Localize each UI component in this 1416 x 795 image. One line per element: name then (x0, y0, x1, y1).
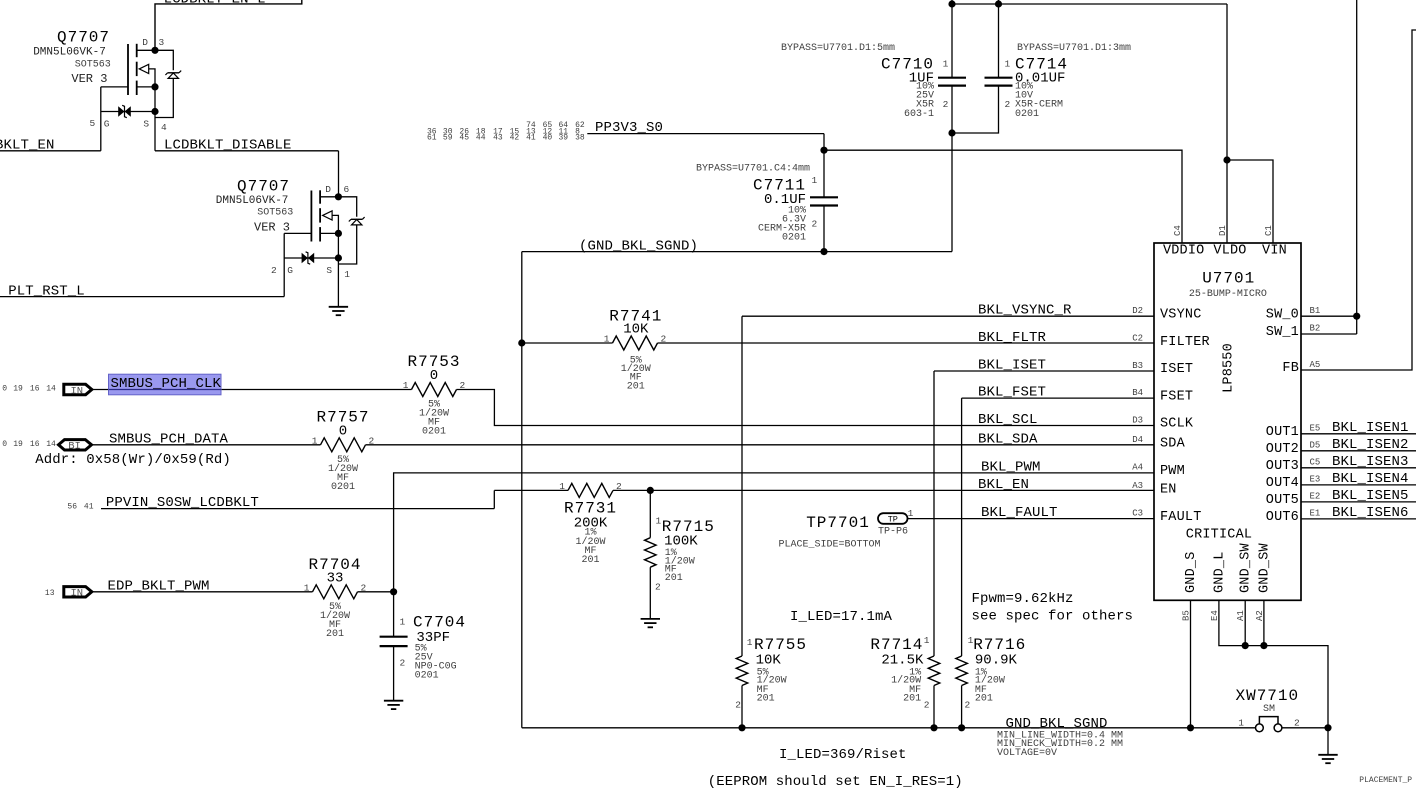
resistor R7716 (956, 656, 968, 686)
svg-text:C1: C1 (1264, 225, 1274, 236)
wire gate riser of lower Q7707 (283, 233, 285, 296)
svg-text:BKL_FSET: BKL_FSET (978, 385, 1046, 401)
svg-text:I_LED=369/Riset: I_LED=369/Riset (779, 747, 907, 763)
net LCDBKLT_EN_L entering from page top (155, 0, 302, 50)
svg-text:2: 2 (812, 219, 818, 230)
svg-text:0: 0 (339, 423, 347, 439)
svg-text:1: 1 (943, 58, 949, 69)
svg-text:33: 33 (327, 570, 344, 586)
svg-text:25-BUMP-MICRO: 25-BUMP-MICRO (1189, 289, 1267, 300)
svg-text:Addr: 0x58(Wr)/0x59(Rd): Addr: 0x58(Wr)/0x59(Rd) (35, 452, 231, 468)
svg-text:90.9K: 90.9K (975, 653, 1018, 669)
svg-text:1: 1 (403, 380, 409, 391)
svg-text:BKL_SDA: BKL_SDA (978, 431, 1038, 447)
resistor R7757 (321, 438, 366, 452)
svg-text:BKL_SCL: BKL_SCL (978, 412, 1038, 428)
svg-text:0: 0 (2, 440, 7, 449)
svg-text:DMN5L06VK-7: DMN5L06VK-7 (216, 195, 289, 207)
svg-text:BKL_ISEN5: BKL_ISEN5 (1332, 488, 1409, 504)
svg-text:2: 2 (735, 700, 741, 711)
net BKL_ISEN4 (1301, 484, 1416, 486)
svg-text:603-1: 603-1 (904, 109, 934, 120)
svg-text:LCDBKLT_EN_L: LCDBKLT_EN_L (164, 0, 266, 8)
svg-text:21.5K: 21.5K (881, 653, 924, 669)
svg-text:BKL_ISEN4: BKL_ISEN4 (1332, 471, 1409, 487)
svg-text:D4: D4 (1132, 435, 1143, 445)
svg-text:61: 61 (427, 134, 437, 143)
svg-text:14: 14 (46, 385, 56, 394)
svg-text:PLACEMENT_P: PLACEMENT_P (1359, 776, 1412, 785)
svg-text:S: S (143, 119, 149, 130)
svg-text:59: 59 (443, 134, 453, 143)
wire BKL_SCL from R7753 to SCLK (457, 390, 1155, 426)
svg-text:FB: FB (1282, 361, 1299, 376)
node junctions on bottom rail (738, 724, 745, 731)
net BKL_ISEN2 (1301, 450, 1416, 452)
svg-text:VOLTAGE=0V: VOLTAGE=0V (997, 748, 1057, 759)
svg-text:19: 19 (13, 385, 23, 394)
svg-text:43: 43 (493, 134, 503, 143)
svg-text:FILTER: FILTER (1160, 335, 1210, 350)
op-amp U7701 LP8550 body (1154, 243, 1301, 600)
resistor R7715 (649, 490, 651, 537)
svg-text:14: 14 (46, 440, 56, 449)
svg-text:R7714: R7714 (870, 636, 923, 654)
net BKL_ISEN1 (1301, 433, 1416, 435)
svg-text:2: 2 (616, 481, 622, 492)
svg-text:D: D (142, 37, 148, 48)
svg-text:SDA: SDA (1160, 436, 1186, 451)
svg-text:OUT5: OUT5 (1266, 493, 1299, 508)
resistor R7731 (568, 483, 613, 497)
wire GND runner vertical (521, 252, 523, 728)
svg-text:201: 201 (627, 381, 645, 392)
svg-text:C5: C5 (1310, 458, 1321, 468)
svg-text:GND_S: GND_S (1184, 551, 1199, 593)
svg-text:U7701: U7701 (1202, 270, 1255, 288)
svg-text:FSET: FSET (1160, 389, 1193, 404)
resistor R7753 (412, 383, 457, 397)
svg-text:2: 2 (271, 265, 277, 276)
svg-text:13: 13 (45, 589, 55, 598)
svg-text:SOT563: SOT563 (75, 59, 111, 70)
svg-text:40: 40 (543, 134, 553, 143)
svg-text:VLDO: VLDO (1213, 244, 1246, 259)
node junction PP3V3 to C7711 and VDDIO (820, 147, 827, 154)
svg-text:GND_SW: GND_SW (1239, 542, 1254, 593)
svg-text:BKL_FAULT: BKL_FAULT (981, 505, 1058, 521)
svg-text:2: 2 (400, 658, 406, 669)
ground at C7704 (384, 700, 403, 702)
svg-text:GND_L: GND_L (1212, 551, 1227, 593)
wire BKL_PWM up and right to PWM pin (394, 473, 1154, 592)
svg-text:IN: IN (70, 588, 83, 600)
svg-text:BKLT_EN: BKLT_EN (0, 138, 55, 154)
svg-text:PPVIN_S0SW_LCDBKLT: PPVIN_S0SW_LCDBKLT (106, 495, 259, 511)
node junction EN divider (647, 487, 654, 494)
svg-text:SM: SM (1263, 704, 1275, 715)
svg-text:4: 4 (161, 122, 167, 133)
net BKLT_EN (LCDBKLT_EN clipped at page edge) (0, 150, 101, 152)
wire GND_L / GND_SW rail (1219, 600, 1328, 728)
svg-text:SMBUS_PCH_CLK: SMBUS_PCH_CLK (111, 376, 222, 392)
svg-text:1: 1 (908, 508, 914, 519)
capacitor C7704 (393, 592, 395, 637)
svg-text:OUT4: OUT4 (1266, 476, 1299, 491)
net BKL_ISEN6 (1301, 518, 1416, 520)
svg-text:SW_0: SW_0 (1266, 307, 1299, 322)
svg-text:BI: BI (68, 441, 81, 453)
svg-text:VER 3: VER 3 (254, 221, 290, 235)
svg-text:GND_SW: GND_SW (1257, 542, 1272, 593)
transistor Q7707 (upper) (127, 44, 129, 95)
capacitor C7710 (951, 4, 953, 78)
wire VLDO/VIN feed from top rail (1226, 4, 1228, 160)
svg-text:B3: B3 (1132, 361, 1143, 371)
svg-text:A4: A4 (1132, 463, 1143, 473)
wire FB to page top right (1301, 30, 1416, 370)
svg-text:EN: EN (1160, 482, 1177, 497)
svg-text:3: 3 (159, 37, 165, 48)
svg-text:1: 1 (747, 637, 753, 648)
svg-text:SMBUS_PCH_DATA: SMBUS_PCH_DATA (109, 431, 229, 447)
svg-text:E5: E5 (1310, 424, 1321, 434)
svg-text:D: D (325, 184, 331, 195)
wire BKL_FSET from R7716 to FSET (962, 397, 1154, 399)
svg-text:BYPASS=U7701.C4:4mm: BYPASS=U7701.C4:4mm (696, 164, 810, 175)
svg-text:0201: 0201 (1015, 109, 1039, 120)
net PLT_RST_L (0, 296, 284, 298)
svg-text:C2: C2 (1132, 333, 1143, 343)
svg-text:2: 2 (1005, 99, 1011, 110)
svg-text:0: 0 (430, 368, 438, 384)
svg-text:39: 39 (559, 134, 569, 143)
capacitor C7714 (998, 4, 1000, 78)
svg-text:2: 2 (924, 700, 930, 711)
svg-text:10K: 10K (623, 322, 649, 338)
wire BKL_ISET from R7714 to ISET (934, 370, 1154, 372)
node SMBUS_PCH_CLK highlighted net label (109, 374, 222, 395)
svg-text:C3: C3 (1132, 508, 1143, 518)
svg-text:SOT563: SOT563 (257, 208, 293, 219)
svg-text:BKL_ISEN3: BKL_ISEN3 (1332, 454, 1409, 470)
svg-text:(GND_BKL_SGND): (GND_BKL_SGND) (579, 238, 698, 254)
wire BKL_SDA from R7757 to SDA (366, 444, 1155, 446)
svg-text:BKL_ISET: BKL_ISET (978, 358, 1046, 374)
svg-text:0: 0 (2, 385, 7, 394)
svg-text:D3: D3 (1132, 415, 1143, 425)
svg-text:SCLK: SCLK (1160, 417, 1194, 432)
svg-text:OUT6: OUT6 (1266, 510, 1299, 525)
svg-text:G: G (287, 265, 293, 276)
svg-text:VIN: VIN (1262, 244, 1287, 259)
svg-text:0201: 0201 (331, 482, 355, 493)
svg-text:D5: D5 (1310, 441, 1321, 451)
svg-text:D1: D1 (1218, 225, 1228, 236)
node junction at C7714 top (995, 0, 1002, 7)
svg-text:R7755: R7755 (754, 636, 807, 654)
svg-text:0201: 0201 (422, 427, 446, 438)
svg-text:B2: B2 (1310, 324, 1321, 334)
svg-text:BKL_ISEN6: BKL_ISEN6 (1332, 505, 1409, 521)
svg-text:201: 201 (326, 629, 344, 640)
svg-text:G: G (104, 119, 110, 130)
svg-text:42: 42 (510, 134, 520, 143)
svg-text:TP-P6: TP-P6 (878, 527, 908, 538)
svg-text:E1: E1 (1310, 509, 1321, 519)
resistor R7755 (736, 656, 748, 686)
wire SW_0 to inductor rail (1301, 315, 1357, 317)
wire to VDDIO pin (824, 150, 1182, 243)
net BKL_ISEN5 (1301, 501, 1416, 503)
svg-text:E2: E2 (1310, 492, 1321, 502)
svg-text:41: 41 (526, 134, 536, 143)
svg-text:TP7701: TP7701 (806, 514, 870, 532)
svg-text:5: 5 (90, 118, 96, 129)
node junction at C7710 top (948, 0, 955, 7)
svg-text:B4: B4 (1132, 388, 1143, 398)
svg-text:0201: 0201 (415, 671, 439, 682)
wire BKL_VSYNC_R from divider to VSYNC (742, 315, 1154, 317)
svg-text:(EEPROM should set EN_I_RES=1): (EEPROM should set EN_I_RES=1) (708, 774, 963, 790)
svg-text:PLT_RST_L: PLT_RST_L (8, 283, 85, 299)
svg-text:16: 16 (30, 385, 40, 394)
svg-text:VDDIO: VDDIO (1163, 244, 1205, 259)
node junction at caps bottom (948, 129, 955, 136)
svg-text:1: 1 (400, 617, 406, 628)
resistor R7741 (522, 342, 613, 344)
svg-text:19: 19 (13, 440, 23, 449)
svg-text:201: 201 (665, 573, 683, 584)
wire GND_S down (1190, 600, 1192, 728)
svg-text:see spec for others: see spec for others (972, 609, 1134, 625)
svg-text:LP8550: LP8550 (1222, 343, 1237, 393)
svg-text:S: S (326, 265, 332, 276)
svg-text:1: 1 (1005, 58, 1011, 69)
svg-text:2: 2 (661, 334, 667, 345)
svg-text:1: 1 (1238, 717, 1244, 728)
svg-text:44: 44 (476, 134, 486, 143)
svg-text:VSYNC: VSYNC (1160, 307, 1202, 322)
svg-text:Q7707: Q7707 (237, 178, 290, 196)
svg-text:DMN5L06VK-7: DMN5L06VK-7 (33, 47, 106, 59)
svg-text:1: 1 (559, 481, 565, 492)
svg-text:D2: D2 (1132, 306, 1143, 316)
wire caps bottom to GND_BKL_SGND rail (951, 133, 953, 252)
svg-text:PWM: PWM (1160, 464, 1185, 479)
svg-text:1: 1 (344, 269, 350, 280)
svg-text:FAULT: FAULT (1160, 510, 1202, 525)
ground at lower Q7707 source (329, 306, 348, 308)
svg-text:A3: A3 (1132, 481, 1143, 491)
net BKL_ISEN3 (1301, 467, 1416, 469)
svg-text:38: 38 (575, 134, 585, 143)
svg-text:1: 1 (312, 436, 318, 447)
svg-text:XW7710: XW7710 (1236, 687, 1300, 705)
svg-text:Q7707: Q7707 (57, 29, 110, 47)
svg-text:IN: IN (70, 385, 83, 397)
svg-text:2: 2 (1294, 717, 1300, 728)
svg-text:41: 41 (84, 502, 94, 511)
wire to ground (1327, 728, 1329, 755)
svg-text:0201: 0201 (782, 233, 806, 244)
svg-text:ISET: ISET (1160, 362, 1193, 377)
svg-text:1: 1 (812, 175, 818, 186)
node junction C7711 bottom (820, 248, 827, 255)
svg-text:BYPASS=U7701.D1:5mm: BYPASS=U7701.D1:5mm (781, 43, 895, 54)
wire SW_1 (1301, 333, 1357, 335)
svg-text:201: 201 (903, 693, 921, 704)
svg-text:BKL_VSYNC_R: BKL_VSYNC_R (978, 303, 1072, 319)
svg-text:SW_1: SW_1 (1266, 325, 1299, 340)
svg-text:1: 1 (604, 334, 610, 345)
wire BKL_EN line with divider (494, 489, 568, 491)
resistor R7714 (928, 656, 940, 686)
svg-text:10K: 10K (756, 653, 782, 669)
svg-text:OUT3: OUT3 (1266, 459, 1299, 474)
svg-text:R7716: R7716 (973, 636, 1026, 654)
net (GND_BKL_SGND) upper rail (522, 251, 952, 253)
svg-text:BKL_FLTR: BKL_FLTR (978, 330, 1047, 346)
svg-text:LCDBKLT_DISABLE: LCDBKLT_DISABLE (164, 138, 292, 154)
svg-text:A5: A5 (1310, 360, 1321, 370)
net GND_BKL_SGND bottom rail (522, 727, 1256, 729)
svg-text:B1: B1 (1310, 306, 1321, 316)
resistor R7704 (313, 585, 358, 599)
node junction R7704 / C7704 / PWM (390, 588, 397, 595)
svg-text:EDP_BKLT_PWM: EDP_BKLT_PWM (108, 578, 210, 594)
svg-text:201: 201 (757, 693, 775, 704)
svg-text:1: 1 (304, 583, 310, 594)
net PP3V3_S0 (587, 133, 824, 135)
svg-text:Fpwm=9.62kHz: Fpwm=9.62kHz (972, 591, 1074, 607)
wire gate riser of upper Q7707 (100, 87, 102, 151)
svg-text:2: 2 (965, 700, 971, 711)
svg-text:E3: E3 (1310, 475, 1321, 485)
svg-text:1: 1 (656, 515, 662, 526)
svg-text:PP3V3_S0: PP3V3_S0 (595, 120, 663, 136)
svg-text:BKL_ISEN2: BKL_ISEN2 (1332, 437, 1409, 453)
ground at R7715 (641, 618, 660, 620)
wire BKL_FAULT (908, 518, 1155, 520)
svg-text:201: 201 (581, 555, 599, 566)
svg-text:6: 6 (344, 184, 350, 195)
net LCDBKLT_DISABLE (155, 150, 339, 152)
wire source of lower Q7707 to ground (337, 264, 339, 307)
wire from page top to SW pins (1356, 0, 1358, 334)
svg-text:BKL_PWM: BKL_PWM (981, 459, 1041, 475)
svg-text:BKL_EN: BKL_EN (978, 477, 1029, 493)
svg-text:56: 56 (67, 502, 77, 511)
svg-text:BKL_ISEN1: BKL_ISEN1 (1332, 420, 1409, 436)
svg-text:TP: TP (888, 515, 898, 525)
svg-text:PLACE_SIDE=BOTTOM: PLACE_SIDE=BOTTOM (779, 539, 881, 550)
svg-text:2: 2 (655, 582, 661, 593)
svg-text:OUT2: OUT2 (1266, 442, 1299, 457)
svg-text:I_LED=17.1mA: I_LED=17.1mA (790, 609, 893, 625)
wire PP3V3 top rail with stubs to page top (951, 0, 953, 4)
svg-text:45: 45 (459, 134, 469, 143)
svg-text:201: 201 (975, 693, 993, 704)
svg-text:OUT1: OUT1 (1266, 425, 1299, 440)
svg-text:16: 16 (30, 440, 40, 449)
wire source of upper Q7707 down to LCDBKLT_DISABLE (154, 118, 156, 151)
ground at XW7710 (1318, 754, 1337, 756)
svg-text:C4: C4 (1173, 225, 1183, 236)
capacitor C7711 (823, 150, 825, 197)
transistor Q7707 (lower) (310, 191, 312, 242)
svg-text:VER 3: VER 3 (71, 72, 107, 86)
svg-text:2: 2 (943, 99, 949, 110)
svg-text:CRITICAL: CRITICAL (1186, 528, 1252, 543)
svg-text:BYPASS=U7701.D1:3mm: BYPASS=U7701.D1:3mm (1017, 43, 1131, 54)
svg-text:C7704: C7704 (413, 614, 466, 632)
svg-text:1: 1 (924, 635, 930, 646)
